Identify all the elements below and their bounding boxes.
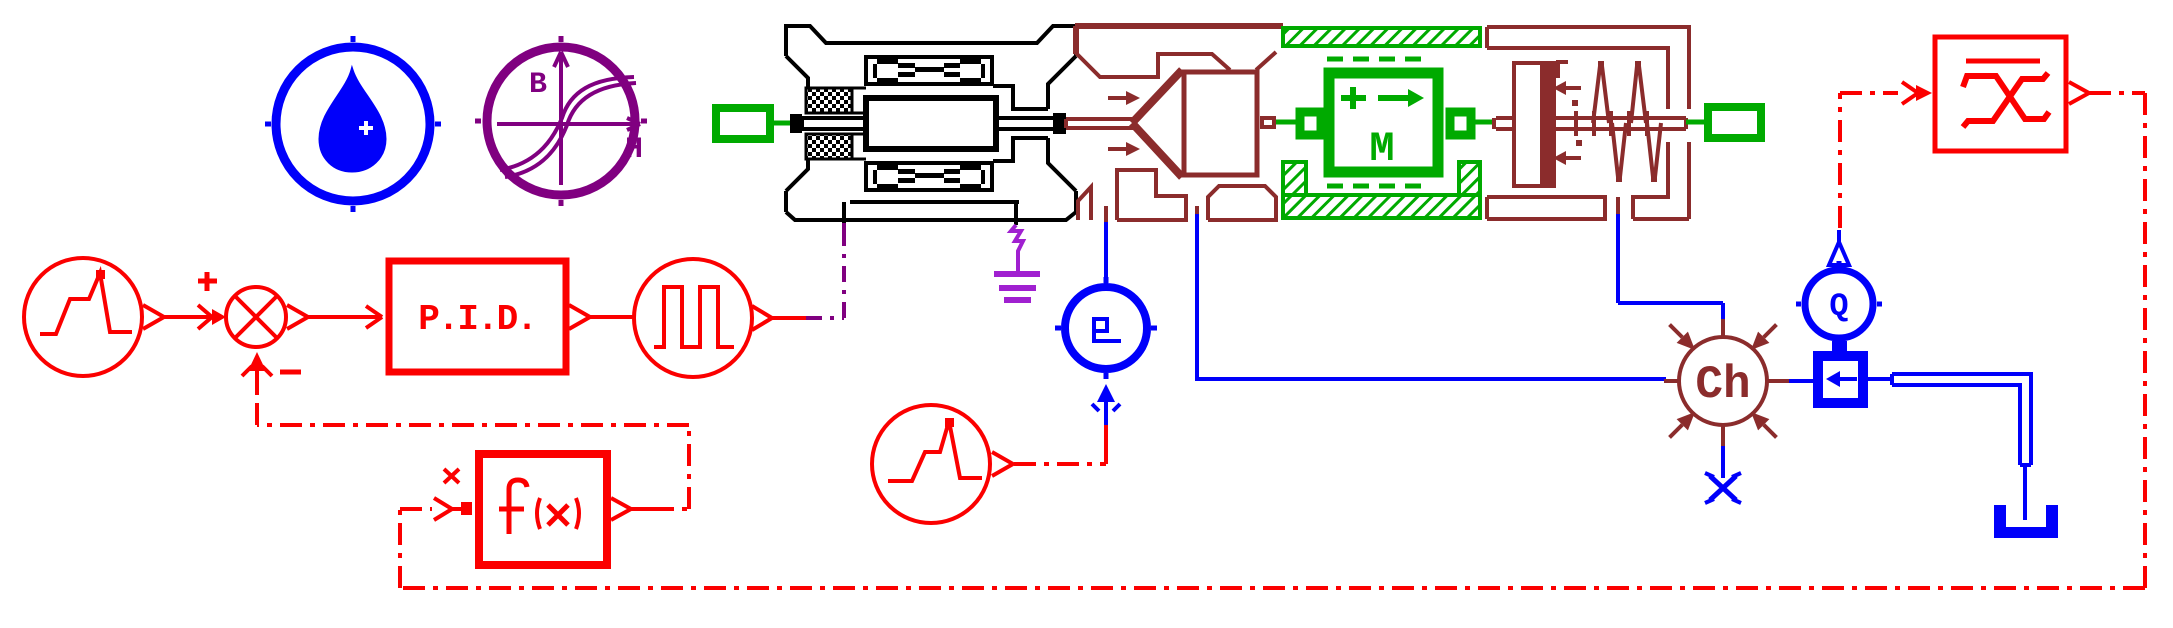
checker block top — [806, 88, 852, 113]
svg-text:M: M — [1369, 125, 1394, 173]
tank — [1994, 505, 2058, 538]
spring — [1593, 61, 1661, 182]
svg-text:Q: Q — [1829, 288, 1848, 325]
blue wire nozzle to chamber — [1195, 214, 1666, 379]
plus sign — [198, 272, 217, 291]
nozzle step block — [1117, 170, 1186, 220]
mass block M — [1276, 73, 1496, 173]
stub to chamber wire — [1195, 206, 1199, 216]
red dash-dot Q to displacement sensor — [1840, 93, 1898, 228]
right pole piece — [993, 86, 1048, 161]
f(x) block — [479, 454, 652, 565]
cylinder with piston and spring (maroon) — [1487, 27, 1689, 219]
green hatch band top — [1283, 28, 1480, 59]
green port left — [716, 108, 790, 139]
nozzle hump — [1208, 186, 1276, 220]
flapper triangle — [1132, 70, 1182, 177]
rod right — [996, 118, 1053, 129]
chamber Ch — [1664, 319, 1789, 446]
flapper nozzle (maroon) — [1066, 26, 1283, 222]
coil top — [866, 57, 992, 84]
wire summer to PID — [308, 306, 382, 328]
summer feedback arrow — [242, 352, 272, 391]
P.I.D. block — [389, 261, 590, 372]
red dash-dot feedback loop right/bottom — [400, 93, 2145, 588]
stub to P sensor — [1104, 206, 1108, 222]
spool rectangle — [1184, 72, 1257, 175]
nozzle wall left — [1078, 187, 1091, 220]
svg-text:B: B — [529, 68, 547, 102]
red wire ramp2 to P — [1014, 425, 1106, 464]
blue wire chamber to flow sensor — [1789, 379, 1816, 383]
wire ramp1 to summer — [164, 305, 226, 329]
magnetic hysteresis icon (B-H circle) — [475, 36, 647, 206]
flow arrows — [1108, 98, 1126, 149]
outer frame top — [786, 26, 1076, 56]
spool output stub — [1262, 118, 1274, 127]
svg-text:Ch: Ch — [1695, 359, 1750, 411]
outer frame bottom ears — [786, 191, 1076, 212]
PWM signal circle — [634, 259, 772, 377]
pressure sensor P — [1055, 277, 1157, 425]
wire PWM out — [772, 316, 806, 320]
signal source ramp2 — [872, 405, 1013, 523]
purple dash-dot wire to solenoid — [806, 223, 844, 318]
blue plugged port below chamber — [1705, 446, 1741, 503]
blue wire cylinder to chamber — [1618, 214, 1723, 321]
frame diagonals top — [786, 56, 1076, 109]
blue wire nozzle to P gauge — [1104, 222, 1108, 285]
red dash-dot f(x) out to summer — [257, 391, 689, 509]
green hatch U bottom — [1283, 162, 1480, 218]
checker block bottom — [806, 134, 852, 159]
rod left — [802, 118, 866, 129]
green line and port right of cylinder — [1686, 107, 1761, 138]
blue pipe to tank — [1863, 374, 2031, 520]
summing junction — [226, 287, 308, 347]
fluid properties icon (drop circle) — [265, 36, 441, 212]
coil bottom — [866, 163, 992, 190]
maroon rod — [1066, 119, 1133, 128]
svg-text:H: H — [625, 133, 643, 167]
armature — [866, 98, 996, 149]
purple ground — [994, 225, 1040, 300]
wire PID to PWM — [590, 315, 634, 319]
wire stubs bottom — [844, 202, 1016, 225]
stub to chamber — [1616, 197, 1620, 216]
chamber arrows — [1664, 319, 1701, 356]
signal source ramp1 — [24, 258, 164, 376]
flow sensor Q circle — [1796, 230, 1882, 351]
displacement sensor x-bar — [1902, 37, 2089, 151]
flow sensor box — [1818, 356, 1863, 403]
svg-text:P.I.D.: P.I.D. — [418, 299, 536, 340]
solenoid actuator (black) — [786, 26, 1076, 225]
minus sign — [280, 370, 301, 375]
f(x) input arrow — [434, 469, 472, 520]
